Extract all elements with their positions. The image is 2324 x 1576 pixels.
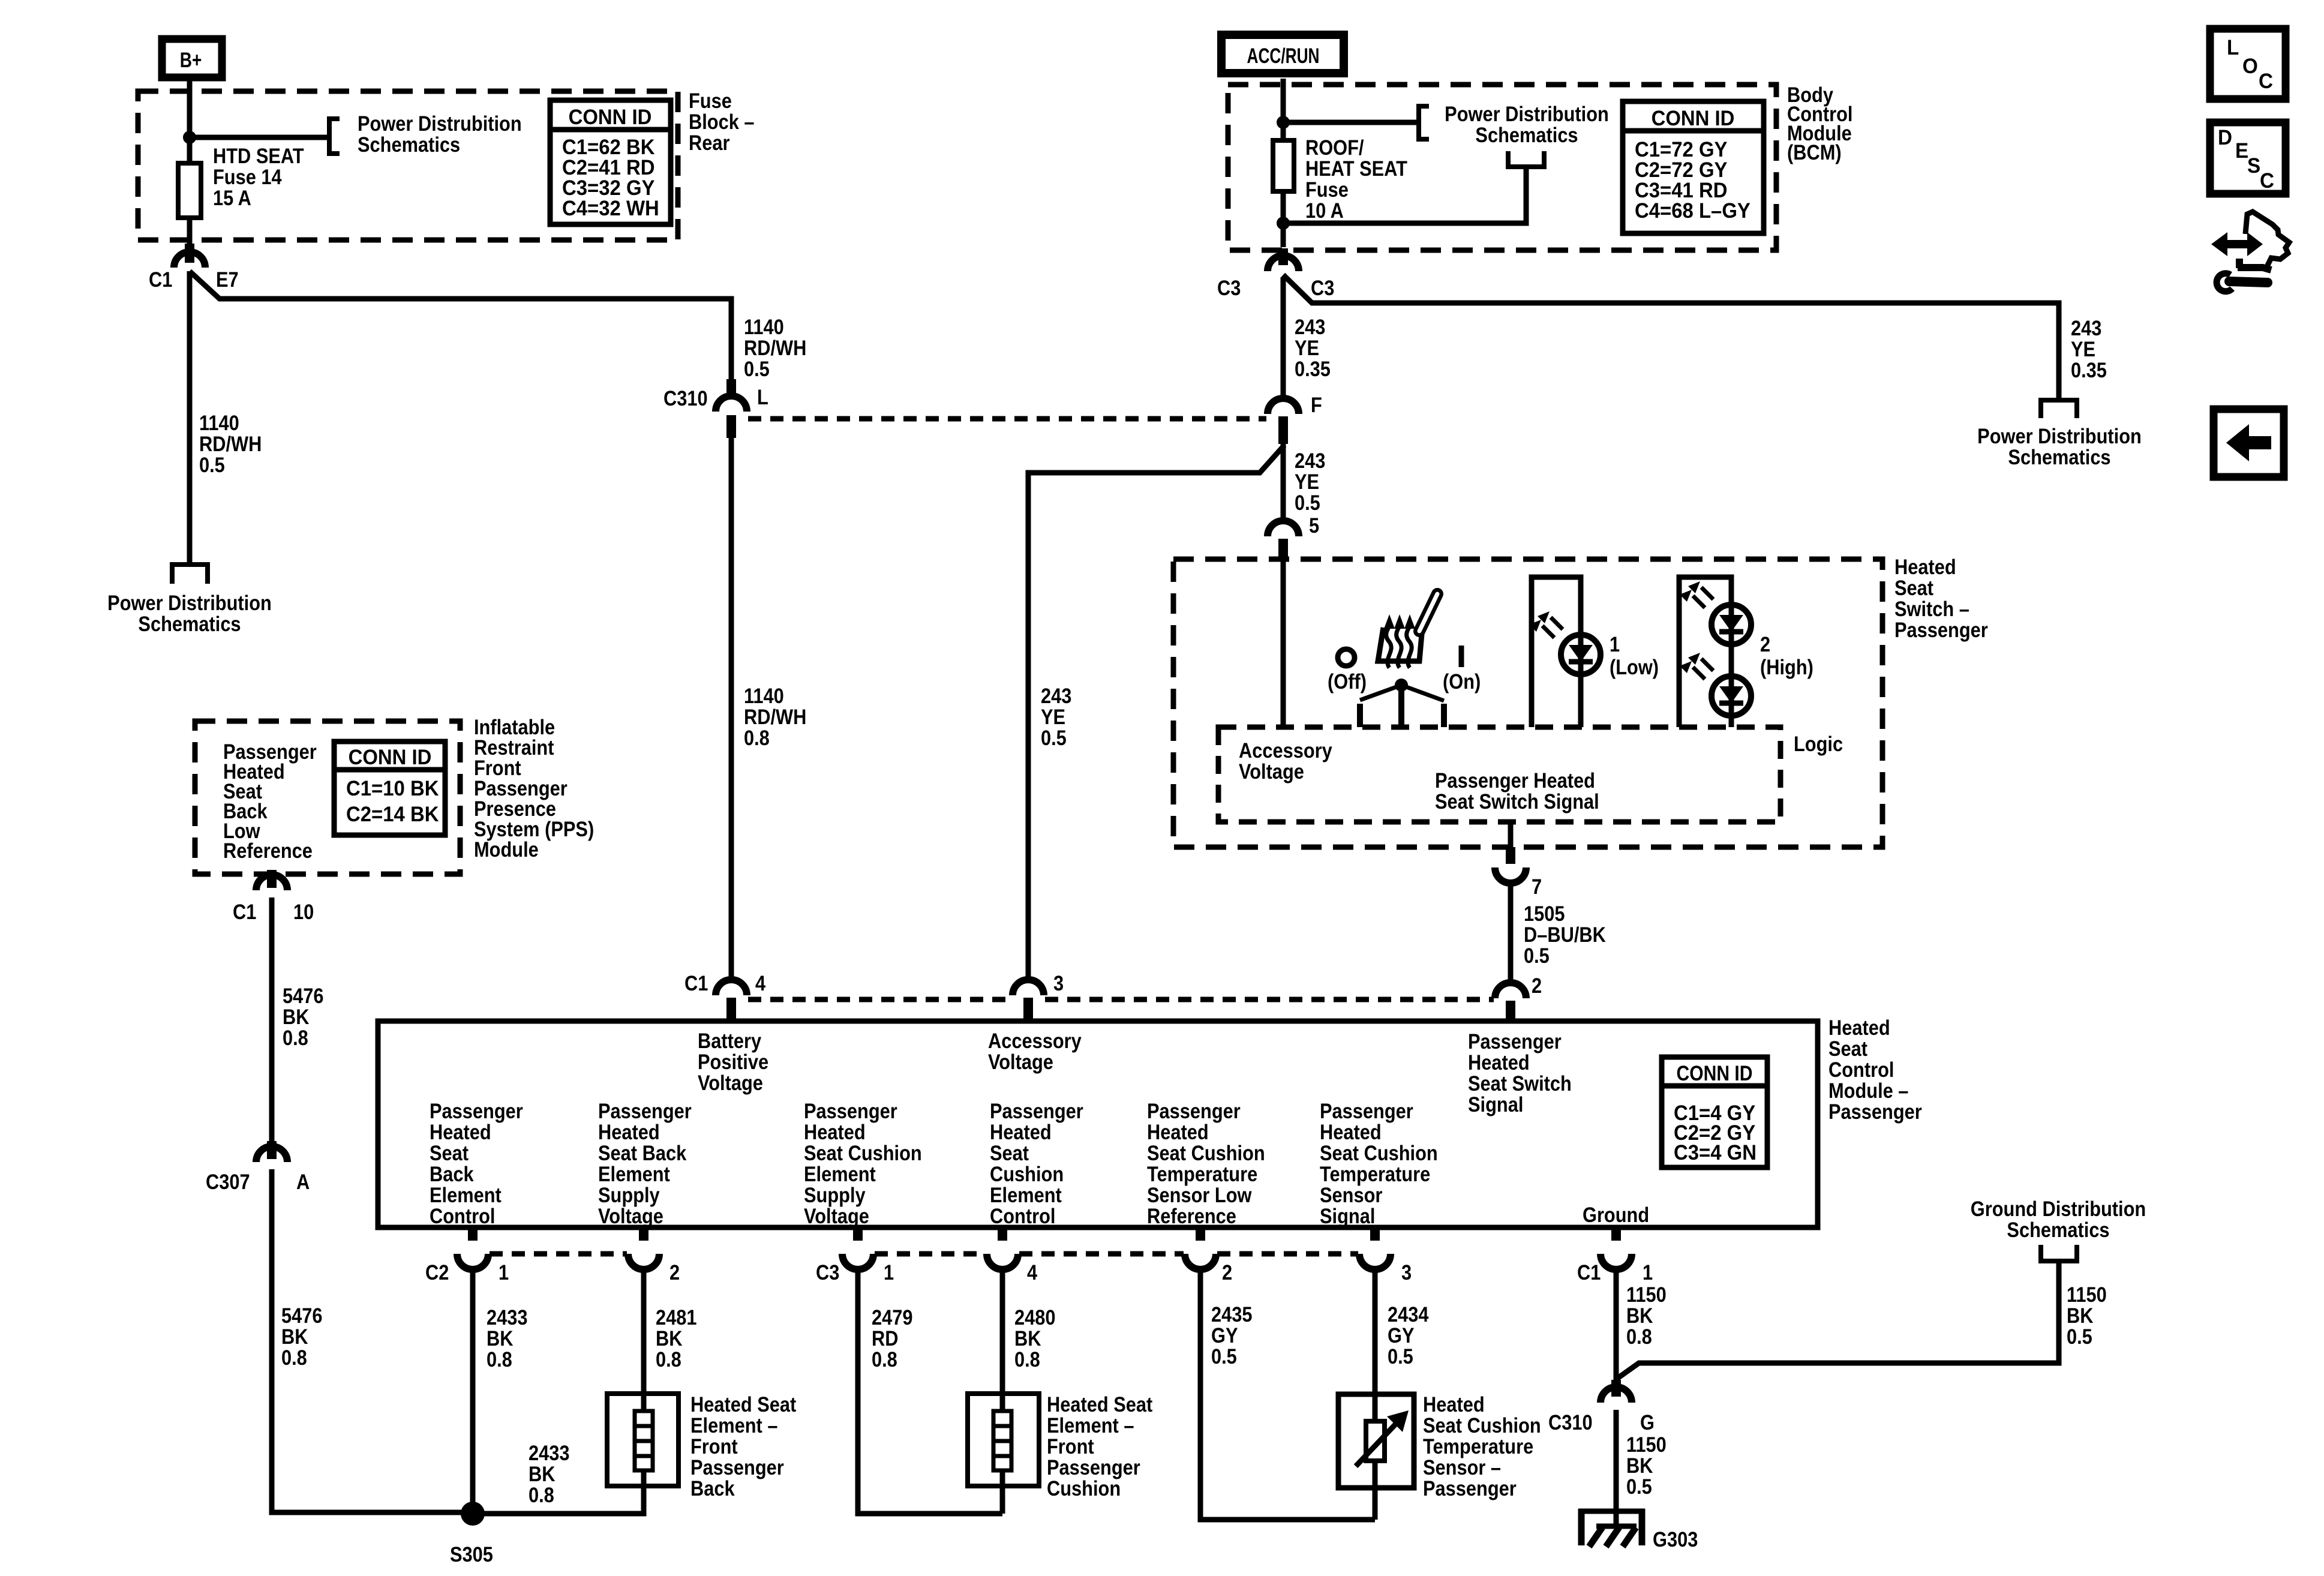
- svg-text:RD/WH: RD/WH: [744, 705, 806, 728]
- icon box back arrow: [2214, 409, 2284, 477]
- svg-text:Accessory: Accessory: [1239, 739, 1332, 762]
- svg-text:Schematics: Schematics: [2007, 1218, 2109, 1241]
- connector module bottom pin 3: [1359, 1227, 1391, 1269]
- wire branch F to accessory voltage pin 3: [1028, 445, 1284, 981]
- LED indicator 1 (Low) loop: [1532, 577, 1581, 727]
- svg-text:0.5: 0.5: [1524, 944, 1550, 967]
- svg-text:C3=4 GN: C3=4 GN: [1674, 1141, 1756, 1164]
- svg-text:Power Distribution: Power Distribution: [1977, 424, 2142, 448]
- connector pin 7 (switch signal): [1495, 847, 1542, 898]
- svg-text:1: 1: [499, 1260, 509, 1284]
- svg-text:Control: Control: [1828, 1058, 1894, 1081]
- connector module bottom pin C1-1: [1601, 1227, 1632, 1269]
- svg-text:Cushion: Cushion: [1047, 1476, 1121, 1500]
- svg-text:E: E: [2235, 139, 2248, 163]
- svg-text:Heated: Heated: [430, 1120, 491, 1143]
- svg-text:BK: BK: [1626, 1304, 1653, 1327]
- svg-text:Element: Element: [430, 1183, 502, 1206]
- off-page symbol power distribution (left): [170, 565, 210, 584]
- svg-text:243: 243: [2071, 316, 2101, 340]
- svg-text:Module: Module: [474, 837, 539, 861]
- svg-text:Control: Control: [430, 1204, 495, 1227]
- connector C310 pin G: [1548, 1380, 1655, 1434]
- svg-text:3: 3: [1053, 971, 1064, 995]
- wire 1150 BK 0.8 ground pin: [1614, 1269, 1619, 1381]
- svg-text:C: C: [2259, 70, 2273, 93]
- svg-text:Ground: Ground: [1583, 1203, 1649, 1226]
- svg-text:1: 1: [1643, 1260, 1653, 1284]
- svg-text:7: 7: [1532, 875, 1542, 898]
- svg-text:Passenger: Passenger: [804, 1099, 897, 1122]
- off-page symbol ground distribution: [2038, 1245, 2079, 1261]
- svg-text:ACC/RUN: ACC/RUN: [1247, 44, 1320, 68]
- svg-text:BK: BK: [1014, 1326, 1041, 1350]
- svg-text:Positive: Positive: [698, 1050, 768, 1073]
- svg-text:Passenger: Passenger: [990, 1099, 1083, 1122]
- connector pin 5 (switch): [1268, 514, 1319, 562]
- svg-text:Schematics: Schematics: [138, 612, 241, 635]
- svg-text:Heated: Heated: [598, 1120, 660, 1143]
- svg-text:Passenger: Passenger: [598, 1099, 692, 1122]
- svg-text:Heated: Heated: [990, 1120, 1052, 1143]
- svg-text:2479: 2479: [872, 1305, 912, 1329]
- svg-text:O: O: [2242, 55, 2258, 78]
- svg-text:243: 243: [1295, 315, 1325, 338]
- svg-text:C3: C3: [816, 1260, 839, 1284]
- icon dog head with arrows and wrench: [2211, 212, 2289, 292]
- svg-text:Voltage: Voltage: [804, 1204, 869, 1227]
- svg-text:BK: BK: [2067, 1304, 2094, 1327]
- svg-text:Sensor –: Sensor –: [1423, 1455, 1501, 1479]
- dashed tie C2 pins: [490, 1251, 627, 1257]
- svg-text:Heated: Heated: [1423, 1392, 1485, 1416]
- node junction below fuse (BCM): [1277, 217, 1290, 230]
- svg-text:Power Distribution: Power Distribution: [107, 591, 272, 614]
- connector pin 2 (module switch signal): [1495, 974, 1542, 1022]
- svg-text:1: 1: [1610, 632, 1620, 656]
- svg-text:BK: BK: [529, 1462, 556, 1485]
- svg-text:0.5: 0.5: [1211, 1344, 1237, 1368]
- svg-text:0.8: 0.8: [281, 1346, 307, 1369]
- svg-text:(Low): (Low): [1610, 655, 1659, 679]
- svg-text:1140: 1140: [744, 315, 784, 338]
- BCM dashed box (Body Control Module): [1228, 85, 1776, 250]
- svg-text:2435: 2435: [1211, 1302, 1252, 1326]
- svg-text:C310: C310: [663, 386, 708, 410]
- svg-text:2480: 2480: [1014, 1305, 1055, 1329]
- wire pin5 into switch logic: [1281, 560, 1286, 727]
- svg-text:Seat Back: Seat Back: [598, 1141, 687, 1164]
- svg-text:Heated: Heated: [1828, 1016, 1890, 1039]
- svg-text:Seat Switch: Seat Switch: [1468, 1071, 1572, 1095]
- svg-text:Passenger Heated: Passenger Heated: [1435, 769, 1595, 792]
- svg-text:0.5: 0.5: [199, 453, 225, 476]
- svg-text:Temperature: Temperature: [1320, 1162, 1430, 1185]
- svg-text:Signal: Signal: [1468, 1092, 1523, 1116]
- svg-text:1140: 1140: [199, 411, 239, 434]
- svg-text:RD/WH: RD/WH: [744, 336, 806, 359]
- svg-text:Power Distrubition: Power Distrubition: [358, 112, 522, 135]
- heated seat control module box: [378, 1021, 1818, 1227]
- svg-text:(BCM): (BCM): [1787, 140, 1842, 164]
- connector module bottom pin C2-1: [457, 1227, 488, 1269]
- svg-text:0.8: 0.8: [529, 1483, 554, 1506]
- svg-text:Passenger: Passenger: [1047, 1455, 1140, 1479]
- wire switch signal out of logic: [1508, 822, 1514, 848]
- svg-text:C1: C1: [233, 900, 256, 923]
- wire 2433 BK 0.8 pin1 to S305: [470, 1269, 476, 1514]
- svg-text:5476: 5476: [281, 1304, 322, 1327]
- svg-text:0.5: 0.5: [1626, 1475, 1652, 1498]
- svg-text:YE: YE: [2071, 337, 2095, 361]
- svg-text:Cushion: Cushion: [990, 1162, 1064, 1185]
- svg-text:Sensor Low: Sensor Low: [1147, 1183, 1252, 1206]
- wire 2480 BK 0.8: [1000, 1269, 1005, 1411]
- svg-text:Heated Seat: Heated Seat: [1047, 1392, 1152, 1416]
- heated seat element front passenger cushion box: [968, 1394, 1039, 1486]
- svg-text:S305: S305: [450, 1542, 493, 1566]
- svg-text:15 A: 15 A: [213, 186, 251, 209]
- svg-text:0.8: 0.8: [872, 1347, 897, 1371]
- svg-text:Accessory: Accessory: [988, 1029, 1082, 1052]
- svg-text:Front: Front: [1047, 1434, 1094, 1458]
- svg-text:YE: YE: [1041, 705, 1065, 728]
- svg-text:Seat Cushion: Seat Cushion: [1147, 1141, 1265, 1164]
- connector C1 pin 10 (PPS): [233, 870, 314, 923]
- svg-text:Passenger: Passenger: [690, 1455, 784, 1479]
- svg-text:BK: BK: [656, 1326, 683, 1350]
- svg-text:Heated: Heated: [804, 1120, 866, 1143]
- svg-text:Element: Element: [598, 1162, 670, 1185]
- svg-text:2: 2: [1760, 632, 1770, 656]
- svg-text:5476: 5476: [283, 984, 323, 1007]
- svg-text:C4=68 L–GY: C4=68 L–GY: [1635, 199, 1750, 223]
- wire 1140 RD/WH 0.5 down to power distribution: [187, 271, 193, 563]
- svg-text:Heated: Heated: [1320, 1120, 1382, 1143]
- fuse ROOF/HEAT SEAT 10A: [1273, 140, 1294, 191]
- svg-text:Seat Cushion: Seat Cushion: [804, 1141, 922, 1164]
- bracket power distribution (BCM top): [1419, 106, 1429, 139]
- svg-text:Back: Back: [430, 1162, 474, 1185]
- svg-text:RD/WH: RD/WH: [199, 432, 262, 455]
- switch on position mark: [1459, 646, 1464, 667]
- wire bracket down to junction (BCM): [1283, 168, 1526, 223]
- wire F down to pin 5: [1281, 444, 1286, 521]
- svg-text:Rear: Rear: [689, 131, 730, 154]
- svg-text:BK: BK: [487, 1326, 514, 1350]
- wire sensor bottom: [1373, 1461, 1378, 1520]
- wire junction to bracket (BCM): [1283, 120, 1419, 125]
- svg-text:2: 2: [669, 1260, 680, 1284]
- svg-text:Passenger: Passenger: [1828, 1100, 1922, 1123]
- svg-text:Voltage: Voltage: [1239, 760, 1304, 783]
- svg-text:Seat: Seat: [990, 1141, 1029, 1164]
- svg-text:A: A: [296, 1170, 310, 1193]
- connector C310 pin L: [663, 379, 768, 438]
- wire B+ to fuse: [187, 81, 193, 163]
- svg-text:Heated: Heated: [1147, 1120, 1209, 1143]
- node junction at B+ feed: [183, 131, 196, 144]
- svg-text:CONN ID: CONN ID: [349, 746, 432, 769]
- svg-text:Supply: Supply: [598, 1183, 660, 1206]
- svg-text:BK: BK: [281, 1325, 308, 1348]
- svg-text:Seat Cushion: Seat Cushion: [1320, 1141, 1438, 1164]
- svg-text:Schematics: Schematics: [2008, 445, 2110, 469]
- svg-text:0.5: 0.5: [1295, 491, 1320, 514]
- svg-text:BK: BK: [283, 1005, 310, 1028]
- svg-text:Seat Switch Signal: Seat Switch Signal: [1435, 789, 1599, 813]
- CONN ID table (PPS): [334, 742, 445, 835]
- wire element to S305: [473, 1470, 644, 1514]
- svg-text:0.8: 0.8: [1626, 1325, 1652, 1348]
- svg-text:C2: C2: [425, 1260, 449, 1284]
- svg-text:Signal: Signal: [1320, 1204, 1375, 1227]
- CONN ID table (module): [1662, 1057, 1767, 1167]
- svg-text:C1: C1: [149, 268, 172, 291]
- svg-text:Passenger: Passenger: [1468, 1029, 1562, 1053]
- bracket power distribution schematics (fuse block): [329, 119, 340, 154]
- svg-text:2481: 2481: [656, 1305, 696, 1329]
- svg-text:1: 1: [884, 1260, 894, 1284]
- icon box DESC: [2210, 122, 2286, 194]
- off-page symbol power distribution (top right): [2038, 400, 2079, 418]
- svg-text:L: L: [2227, 36, 2239, 59]
- power symbol ACC/RUN: [1221, 35, 1344, 73]
- svg-text:CONN ID: CONN ID: [1676, 1061, 1752, 1085]
- CONN ID table (BCM): [1623, 101, 1764, 233]
- svg-text:Passenger: Passenger: [1147, 1099, 1241, 1122]
- svg-text:Schematics: Schematics: [1475, 123, 1578, 146]
- switch off position circle: [1338, 649, 1355, 666]
- dashed connector tie pin4 to pin3 to pin2: [748, 997, 1494, 1002]
- svg-text:4: 4: [755, 971, 766, 995]
- svg-text:Power Distribution: Power Distribution: [1445, 102, 1609, 125]
- svg-text:G303: G303: [1653, 1527, 1698, 1551]
- bracket to lower junction (BCM): [1508, 151, 1544, 167]
- svg-text:0.8: 0.8: [656, 1347, 681, 1371]
- PPS module dashed box: [195, 721, 460, 874]
- svg-text:0.8: 0.8: [744, 726, 770, 749]
- svg-text:Reference: Reference: [223, 839, 313, 862]
- svg-text:10: 10: [293, 900, 314, 923]
- dashed tie C3 pins: [875, 1251, 1358, 1257]
- svg-text:Reference: Reference: [1147, 1204, 1236, 1227]
- wire 1140 RD/WH 0.8 down to module pin 4: [729, 437, 734, 981]
- heated seat element front passenger back box: [607, 1394, 678, 1486]
- connector module bottom pin 4: [987, 1227, 1018, 1269]
- svg-text:Logic: Logic: [1794, 732, 1843, 755]
- connector module bottom pin C3-1: [842, 1227, 873, 1269]
- wire element cushion bottom: [1000, 1470, 1005, 1514]
- connector module bottom pin 2: [628, 1227, 659, 1269]
- ground G303: [1578, 1509, 1645, 1547]
- svg-text:YE: YE: [1295, 470, 1319, 493]
- svg-text:C1: C1: [684, 971, 708, 995]
- CONN ID table (fuse block rear): [550, 100, 671, 224]
- wire 2435 GY 0.5: [1200, 1269, 1375, 1520]
- wire 2479 RD 0.8: [858, 1269, 1002, 1514]
- svg-text:RD: RD: [872, 1326, 898, 1350]
- wire fuse to connector C1: [187, 218, 193, 246]
- svg-text:Switch –: Switch –: [1894, 597, 1969, 620]
- svg-text:0.8: 0.8: [1014, 1347, 1040, 1371]
- svg-text:Fuse 14: Fuse 14: [213, 165, 282, 188]
- svg-text:D–BU/BK: D–BU/BK: [1524, 923, 1606, 946]
- svg-text:HEAT SEAT: HEAT SEAT: [1305, 157, 1407, 180]
- svg-text:Passenger: Passenger: [1423, 1476, 1517, 1500]
- svg-text:Block –: Block –: [689, 110, 755, 133]
- svg-text:Module –: Module –: [1828, 1079, 1908, 1102]
- svg-text:Temperature: Temperature: [1423, 1434, 1533, 1458]
- svg-text:Seat: Seat: [430, 1141, 469, 1164]
- svg-text:CONN ID: CONN ID: [1652, 107, 1735, 130]
- svg-text:C3: C3: [1217, 276, 1241, 299]
- svg-text:CONN ID: CONN ID: [569, 106, 652, 129]
- svg-text:243: 243: [1041, 684, 1071, 707]
- svg-text:C310: C310: [1548, 1410, 1593, 1434]
- svg-text:1150: 1150: [1626, 1433, 1667, 1456]
- svg-text:C1=10 BK: C1=10 BK: [346, 777, 439, 800]
- logic dashed box: [1218, 727, 1780, 822]
- svg-text:GY: GY: [1211, 1323, 1238, 1347]
- svg-text:Voltage: Voltage: [698, 1071, 763, 1094]
- svg-text:0.5: 0.5: [1388, 1344, 1413, 1368]
- wire branch to ground distribution: [1616, 1263, 2059, 1379]
- connector C307 pin A: [206, 1141, 310, 1193]
- svg-text:0.35: 0.35: [1295, 357, 1331, 380]
- svg-text:0.8: 0.8: [283, 1026, 308, 1049]
- svg-text:0.35: 0.35: [2071, 358, 2107, 382]
- svg-text:2: 2: [1532, 974, 1542, 997]
- connector C1 pin 4 (module battery positive): [684, 971, 766, 1022]
- svg-text:5: 5: [1309, 514, 1319, 537]
- svg-text:Heated: Heated: [1468, 1050, 1530, 1074]
- svg-text:C307: C307: [206, 1170, 250, 1193]
- svg-text:HTD SEAT: HTD SEAT: [213, 144, 304, 167]
- svg-text:Temperature: Temperature: [1147, 1162, 1257, 1185]
- svg-text:243: 243: [1295, 449, 1325, 472]
- svg-text:G: G: [1640, 1410, 1655, 1434]
- svg-text:10 A: 10 A: [1305, 199, 1344, 222]
- LED 2a: [1680, 581, 1751, 644]
- wire E7 to C310: [190, 271, 731, 396]
- svg-text:Sensor: Sensor: [1320, 1183, 1383, 1206]
- svg-text:GY: GY: [1388, 1323, 1415, 1347]
- wire 2481 BK 0.8 pin2 to element: [641, 1269, 647, 1411]
- svg-text:Passenger: Passenger: [1894, 618, 1988, 641]
- svg-text:Front: Front: [690, 1434, 738, 1458]
- svg-text:Back: Back: [690, 1476, 735, 1500]
- connector F (switch feed): [1268, 393, 1322, 444]
- svg-text:0.5: 0.5: [2067, 1325, 2092, 1348]
- svg-text:Element –: Element –: [690, 1413, 777, 1437]
- connector pin 3 (module accessory voltage): [1013, 971, 1064, 1022]
- heated seat cushion temperature sensor box: [1338, 1394, 1414, 1488]
- svg-text:Heated Seat: Heated Seat: [690, 1392, 796, 1416]
- svg-text:Ground Distribution: Ground Distribution: [1971, 1197, 2146, 1220]
- svg-text:Element: Element: [804, 1162, 876, 1185]
- svg-text:2433: 2433: [529, 1441, 569, 1464]
- LED 1: [1529, 611, 1601, 674]
- svg-text:B+: B+: [180, 48, 202, 72]
- svg-text:Battery: Battery: [698, 1029, 762, 1052]
- svg-text:2: 2: [1222, 1260, 1232, 1284]
- svg-text:1150: 1150: [2067, 1283, 2107, 1306]
- svg-text:Fuse: Fuse: [689, 89, 732, 112]
- svg-text:Supply: Supply: [804, 1183, 866, 1206]
- svg-text:Voltage: Voltage: [598, 1204, 663, 1227]
- LED 2b: [1680, 653, 1751, 716]
- svg-text:Element: Element: [990, 1183, 1062, 1206]
- connector module bottom pin 2b: [1185, 1227, 1216, 1269]
- svg-text:2433: 2433: [487, 1305, 527, 1329]
- svg-text:E7: E7: [216, 268, 239, 291]
- wire 1150 BK 0.5 to G303: [1614, 1410, 1619, 1526]
- svg-text:Fuse: Fuse: [1305, 178, 1349, 201]
- wire 5476 BK 0.8 upper: [269, 897, 275, 1143]
- svg-text:BK: BK: [1626, 1454, 1653, 1477]
- svg-text:Passenger: Passenger: [1320, 1099, 1413, 1122]
- heated seat icon: [1378, 594, 1437, 668]
- svg-text:YE: YE: [1295, 336, 1319, 359]
- svg-text:1505: 1505: [1524, 902, 1565, 925]
- svg-text:4: 4: [1027, 1260, 1038, 1284]
- svg-text:Heated: Heated: [1894, 555, 1956, 578]
- heated seat switch dashed box: [1173, 559, 1882, 847]
- svg-text:D: D: [2218, 126, 2232, 149]
- svg-text:C2=14 BK: C2=14 BK: [346, 803, 439, 826]
- svg-text:F: F: [1311, 393, 1322, 416]
- svg-text:Seat: Seat: [1828, 1037, 1867, 1060]
- svg-text:0.5: 0.5: [744, 357, 770, 380]
- LED indicator 2 (High) loop: [1679, 577, 1731, 727]
- connector C3 C3 (BCM out): [1217, 248, 1334, 299]
- fuse F14 HTD SEAT 15A: [178, 163, 201, 218]
- wire 5476 BK 0.8 lower to S305: [272, 1169, 473, 1512]
- svg-text:C1: C1: [1577, 1260, 1601, 1284]
- svg-text:2434: 2434: [1388, 1302, 1429, 1326]
- switch pivot and blades: [1360, 679, 1444, 727]
- fuse block dashed box (Fuse Block - Rear): [138, 91, 678, 240]
- wire 1505 D-BU/BK 0.5: [1508, 883, 1514, 983]
- svg-text:0.8: 0.8: [487, 1347, 512, 1371]
- svg-text:0.5: 0.5: [1041, 726, 1067, 749]
- dashed connector tie C310 to F: [748, 416, 1266, 422]
- svg-text:L: L: [757, 385, 768, 409]
- svg-text:S: S: [2247, 154, 2260, 178]
- wire junction to power distribution bracket: [190, 135, 329, 140]
- svg-text:Passenger: Passenger: [430, 1099, 523, 1122]
- svg-text:1140: 1140: [744, 684, 784, 707]
- svg-text:(Off): (Off): [1328, 670, 1367, 693]
- wire C3 down to F: [1281, 277, 1286, 398]
- svg-text:(High): (High): [1760, 655, 1813, 679]
- svg-text:Seat: Seat: [1894, 576, 1933, 599]
- svg-text:Element –: Element –: [1047, 1413, 1134, 1437]
- svg-text:1150: 1150: [1626, 1283, 1667, 1306]
- wire C3 branch right 243 YE 0.35: [1283, 275, 2059, 398]
- svg-text:Seat Cushion: Seat Cushion: [1423, 1413, 1541, 1437]
- wire ACC/RUN to fuse: [1281, 79, 1286, 140]
- splice S305: [461, 1502, 485, 1526]
- connector C1 pin E7 (fuse block): [149, 244, 239, 291]
- power symbol B+: [162, 39, 222, 77]
- svg-text:3: 3: [1401, 1260, 1412, 1284]
- icon box LOC: [2210, 29, 2286, 99]
- svg-text:C4=32 WH: C4=32 WH: [562, 197, 659, 220]
- svg-text:Control: Control: [990, 1204, 1055, 1227]
- wire 2434 GY 0.5: [1373, 1269, 1378, 1421]
